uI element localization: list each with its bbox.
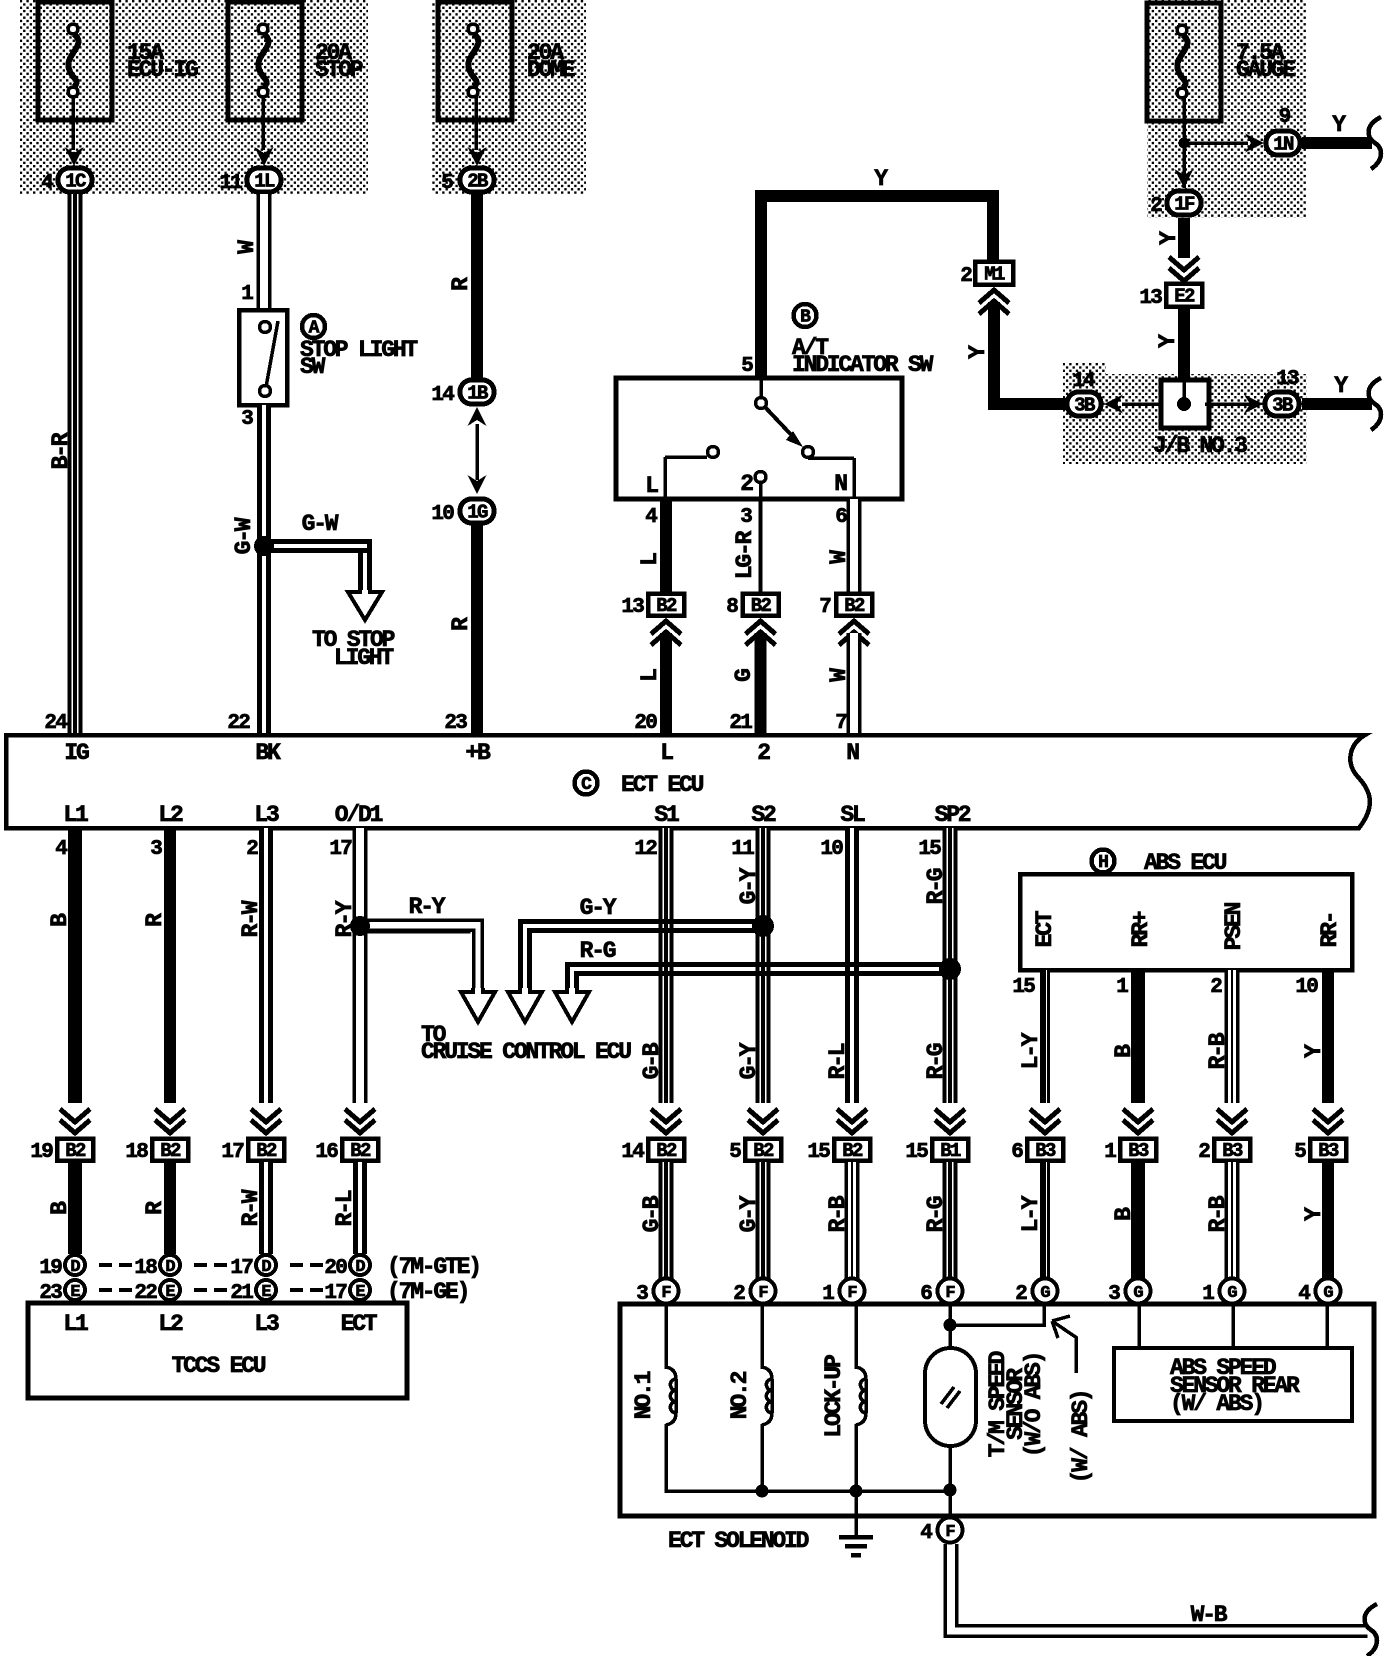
wire R-G lower segment x950 — [943, 1162, 958, 1279]
svg-text:L: L — [637, 553, 663, 566]
svg-text:N: N — [846, 740, 859, 766]
svg-text:7: 7 — [835, 712, 847, 735]
svg-text:4: 4 — [645, 506, 657, 529]
connector 1B pin 14 — [431, 380, 494, 407]
label 20A STOP — [315, 40, 363, 83]
pin 2 label below ECU — [246, 838, 258, 861]
label R-B lower x852 — [825, 1195, 851, 1232]
chevron down above B1 x950 — [935, 1109, 965, 1133]
connector D pin 17 — [230, 1255, 276, 1280]
wire L-Y ABS upper x1045 — [1040, 970, 1050, 1103]
svg-text:13: 13 — [1276, 368, 1299, 391]
svg-text:L2: L2 — [158, 1311, 183, 1337]
wire B-R vertical — [68, 194, 83, 733]
wire G-Y upper segment x763 — [756, 828, 771, 1103]
arrow left into 3B — [1104, 395, 1123, 414]
ECT ECU box — [6, 735, 1370, 828]
wire G-W below switch — [257, 405, 271, 733]
svg-text:17: 17 — [230, 1257, 253, 1280]
pin 6 label AT — [835, 506, 847, 529]
ABS pin labels rotated — [1032, 902, 1343, 950]
pin 3 label AT — [740, 506, 752, 529]
wire T/M column lower — [948, 1446, 952, 1514]
label R-G horizontal — [580, 938, 616, 964]
svg-text:2B: 2B — [467, 171, 488, 193]
svg-text:19: 19 — [30, 1141, 53, 1164]
svg-text:L-Y: L-Y — [1018, 1195, 1044, 1232]
ABS ECU box — [1020, 874, 1352, 970]
svg-text:G-W: G-W — [231, 517, 257, 554]
svg-text:A: A — [309, 319, 320, 339]
svg-text:Y: Y — [874, 166, 888, 192]
pin 22 label — [227, 712, 250, 735]
svg-text:ECT ECU: ECT ECU — [621, 772, 704, 798]
svg-text:3B: 3B — [1074, 395, 1095, 417]
A/T sw N contact line — [808, 458, 854, 499]
svg-text:(W/ ABS): (W/ ABS) — [1068, 1391, 1094, 1484]
connector B2 pin 18 — [125, 1139, 188, 1165]
svg-text:D: D — [70, 1258, 80, 1277]
svg-text:E2: E2 — [1174, 286, 1195, 308]
connector G pin 4 — [1298, 1279, 1340, 1307]
svg-text:S1: S1 — [654, 802, 679, 828]
svg-text:NO.1: NO.1 — [631, 1371, 657, 1419]
svg-text:W: W — [234, 240, 260, 254]
connector B2 pin 7 — [819, 594, 872, 620]
label R upper — [448, 277, 474, 291]
junction dot rail NO.2 — [756, 1485, 769, 1498]
svg-text:G-Y: G-Y — [580, 895, 617, 921]
label G-Y top x763 — [736, 867, 762, 904]
label R lower — [448, 617, 474, 631]
label LOCK-UP — [821, 1355, 847, 1438]
svg-text:L3: L3 — [254, 1311, 279, 1337]
A/T sw common contact — [756, 380, 767, 409]
junction dot O/D1 branch — [350, 916, 370, 936]
connector F pin 4 — [920, 1518, 962, 1546]
label 20A DOME — [527, 40, 575, 83]
wire fuse1 tail — [71, 97, 75, 150]
label L-Y ABS lower x1045 — [1018, 1195, 1044, 1232]
svg-text:R-W: R-W — [238, 900, 264, 937]
ABS pin 1 number — [1116, 976, 1128, 999]
pin 23 label — [444, 712, 467, 735]
wire Y E2 to J/B — [1178, 308, 1190, 380]
svg-text:B2: B2 — [844, 595, 865, 617]
wire R-G upper segment x950 — [943, 828, 958, 1103]
label Y top — [874, 166, 888, 192]
chevron up below B2-7 — [839, 621, 869, 645]
label R-Y upper x360 — [332, 900, 358, 937]
svg-text:Y: Y — [1155, 334, 1181, 348]
wire gauge tail — [1182, 97, 1186, 188]
wire Y 1F to E2 — [1178, 218, 1190, 258]
wire 2G to T/M junction — [956, 1306, 1044, 1327]
chevron down above B2 x763 — [748, 1109, 778, 1133]
svg-text:21: 21 — [729, 712, 752, 735]
wire B upper segment x75 — [68, 828, 82, 1103]
connector B3 pin 5 — [1294, 1139, 1346, 1165]
pin 11 label below ECU x763 — [731, 838, 754, 861]
svg-text:ECT: ECT — [341, 1311, 378, 1337]
svg-text:R-B: R-B — [825, 1195, 851, 1232]
svg-text:B2: B2 — [656, 595, 677, 617]
break symbol W-B — [1365, 1604, 1377, 1656]
svg-text:E: E — [355, 1283, 365, 1302]
circled A — [302, 315, 325, 339]
svg-text:SP2: SP2 — [935, 802, 971, 828]
svg-text:9: 9 — [1279, 106, 1291, 129]
svg-text:1C: 1C — [65, 171, 86, 193]
label R lower x170 — [142, 1201, 168, 1215]
wire Y right of 3B — [1302, 398, 1372, 410]
svg-text:B3: B3 — [1222, 1140, 1243, 1162]
svg-text:(W/ ABS): (W/ ABS) — [1170, 1391, 1263, 1417]
wire L-Y ABS lower x1045 — [1040, 1162, 1050, 1279]
wire G-B upper segment x666 — [659, 828, 674, 1103]
svg-text:B3: B3 — [1128, 1140, 1149, 1162]
connector B2 pin 5 — [729, 1139, 781, 1165]
connector D pin 19 — [39, 1255, 85, 1280]
pin 15 label below ECU x950 — [918, 838, 941, 861]
solenoid coil LOCK-UP — [856, 1306, 866, 1493]
svg-text:R-G: R-G — [923, 868, 949, 904]
wire R-G branch to cruise control — [555, 962, 950, 1022]
junction block hatch top-left — [20, 0, 368, 194]
svg-text:5: 5 — [729, 1141, 741, 1164]
T/M speed sensor capsule — [925, 1348, 976, 1446]
label 7M-GE — [387, 1279, 468, 1305]
svg-text:1: 1 — [1104, 1141, 1116, 1164]
svg-text:G: G — [1133, 1284, 1143, 1303]
label G-W vertical — [231, 517, 257, 554]
pin 17 label below ECU — [329, 838, 352, 861]
label LG-R — [732, 530, 758, 579]
svg-text:L: L — [637, 669, 663, 682]
wire R-Y upper segment x360 — [353, 828, 368, 1103]
label R-G upper x950 — [923, 1043, 949, 1079]
svg-text:1B: 1B — [467, 383, 488, 405]
label Y ABS lower x1328 — [1301, 1207, 1327, 1221]
label W — [234, 240, 260, 254]
svg-text:1L: 1L — [254, 171, 275, 193]
wire G-Y branch to cruise control — [508, 919, 763, 1022]
junction block hatch J/B No.3 — [1063, 362, 1307, 464]
svg-text:F: F — [945, 1523, 955, 1542]
arrow right into 3B-13 — [1244, 395, 1263, 414]
label G-Y upper x763 — [736, 1042, 762, 1079]
label STOP LIGHT SW — [300, 337, 418, 380]
connector B3 pin 2 — [1198, 1139, 1250, 1165]
wire R-W lower segment x266 — [259, 1162, 273, 1254]
svg-text:6: 6 — [835, 506, 847, 529]
label R-B ABS upper x1232 — [1205, 1032, 1231, 1069]
junction dot rail LOCK-UP — [850, 1485, 863, 1498]
svg-text:L1: L1 — [63, 1311, 88, 1337]
svg-text:3: 3 — [740, 506, 752, 529]
connector 1L pin 11 — [219, 168, 281, 195]
pin 12 label below ECU x666 — [634, 838, 657, 861]
svg-text:L3: L3 — [254, 802, 279, 828]
chevron down above B3 x1232 — [1217, 1109, 1247, 1133]
pin 3 label below ECU — [150, 838, 162, 861]
label Y left of J/B wire — [1155, 334, 1181, 348]
J/B junction dot — [1177, 382, 1191, 411]
wire G lower — [755, 633, 767, 733]
connector B3 pin 6 — [1011, 1139, 1063, 1165]
label B upper x75 — [47, 913, 73, 927]
svg-text:E: E — [70, 1283, 80, 1302]
svg-text:6: 6 — [1011, 1141, 1023, 1164]
label R-Y horizontal — [409, 894, 446, 920]
wire R-L upper segment x852 — [845, 828, 859, 1103]
svg-text:G-Y: G-Y — [736, 1042, 762, 1079]
svg-text:R: R — [448, 277, 474, 291]
ECU bottom pin labels — [63, 802, 970, 828]
label G lower — [731, 669, 757, 682]
connector 1F pin 2 — [1150, 191, 1201, 218]
ABS pin 10 number — [1295, 976, 1318, 999]
connector M1 pin 2 — [960, 262, 1013, 289]
svg-text:17: 17 — [221, 1141, 244, 1164]
wire Y M1 to corner — [988, 302, 1068, 410]
label W-B — [1191, 1602, 1228, 1628]
wire R-L lower segment x360 — [353, 1162, 367, 1254]
chevron down above B2 x852 — [837, 1109, 867, 1133]
label R-W upper x266 — [238, 900, 264, 937]
svg-text:2: 2 — [246, 838, 258, 861]
wire W lower AT — [847, 633, 862, 733]
svg-text:1F: 1F — [1174, 194, 1195, 216]
svg-text:S2: S2 — [751, 802, 776, 828]
svg-text:B2: B2 — [656, 1140, 677, 1162]
svg-text:ECU-IG: ECU-IG — [127, 57, 198, 83]
wire R dome — [471, 194, 483, 379]
label T/M SPEED SENSOR W/O ABS — [985, 1351, 1047, 1457]
svg-text:TCCS ECU: TCCS ECU — [172, 1353, 266, 1379]
connector E pin 17 — [324, 1280, 370, 1305]
svg-text:NO.2: NO.2 — [727, 1371, 753, 1419]
wire Y right of 1N — [1302, 137, 1372, 149]
svg-text:G-Y: G-Y — [736, 1195, 762, 1232]
svg-text:R-B: R-B — [1205, 1195, 1231, 1232]
stop light switch A box — [239, 310, 287, 405]
svg-text:20: 20 — [324, 1257, 347, 1280]
svg-text:(W/O ABS): (W/O ABS) — [1021, 1353, 1047, 1457]
svg-text:5: 5 — [441, 172, 453, 195]
svg-text:1G: 1G — [467, 502, 488, 524]
svg-text:IG: IG — [64, 740, 89, 766]
solenoid bottom rail — [666, 1489, 950, 1493]
svg-text:19: 19 — [39, 1257, 62, 1280]
svg-text:8: 8 — [726, 596, 738, 619]
connector B1 pin 15 — [905, 1139, 968, 1165]
svg-text:C: C — [581, 775, 592, 795]
svg-text:11: 11 — [731, 838, 754, 861]
label 7.5A GAUGE — [1236, 40, 1295, 83]
svg-text:ECT: ECT — [1032, 910, 1058, 947]
svg-text:13: 13 — [621, 596, 644, 619]
connector B3 pin 1 — [1104, 1139, 1156, 1165]
A/T sw arm — [764, 406, 814, 458]
label L upper — [637, 553, 663, 566]
label R-G top x950 — [923, 868, 949, 904]
ABS SPEED SENSOR REAR box — [1114, 1348, 1352, 1421]
svg-text:4: 4 — [55, 838, 67, 861]
junction block hatch dome — [432, 0, 586, 194]
wire B lower segment x75 — [68, 1162, 82, 1254]
connector B2 pin 15 — [807, 1139, 870, 1165]
ground — [839, 1491, 873, 1555]
svg-text:M1: M1 — [984, 264, 1005, 286]
svg-text:B2: B2 — [350, 1140, 371, 1162]
arrow down into 1F — [1175, 169, 1194, 188]
svg-text:W-B: W-B — [1191, 1602, 1228, 1628]
connector G pin 3 — [1108, 1279, 1150, 1307]
connector 1C pin 4 — [41, 168, 92, 195]
label ECT SOLENOID — [668, 1528, 809, 1554]
svg-text:DOME: DOME — [527, 57, 575, 83]
svg-text:7: 7 — [819, 596, 831, 619]
solenoid coil NO.1 — [666, 1306, 676, 1493]
label 15A ECU-IG — [127, 40, 198, 83]
chevron up below B2-13 — [651, 621, 681, 645]
wire L upper — [660, 499, 672, 592]
chevron up below B2-8 — [746, 621, 776, 645]
svg-text:R-Y: R-Y — [409, 894, 446, 920]
wire R-W upper segment x266 — [259, 828, 273, 1103]
connector 2B pin 5 — [441, 168, 494, 195]
junction dot S2 branch — [752, 915, 774, 937]
label G-B upper x666 — [639, 1042, 665, 1079]
TCCS pin labels — [63, 1311, 377, 1337]
connector B2 pin 14 — [621, 1139, 684, 1165]
chevron down above B3 x1328 — [1313, 1109, 1343, 1133]
junction block J/B NO.3 box — [1161, 380, 1209, 428]
svg-text:23: 23 — [444, 712, 467, 735]
connector F pin 6 — [920, 1279, 962, 1307]
fuse F1 15A ECU-IG — [38, 2, 112, 120]
wire W upper AT — [847, 499, 862, 592]
fuse F2 20A STOP — [228, 2, 302, 120]
svg-text:H: H — [1098, 853, 1108, 873]
pin 5 label — [741, 355, 753, 378]
svg-text:11: 11 — [219, 172, 242, 195]
svg-text:17: 17 — [329, 838, 352, 861]
svg-text:13: 13 — [1139, 287, 1162, 310]
svg-text:R-G: R-G — [923, 1043, 949, 1079]
wire fuse3 tail — [474, 97, 478, 150]
wire LG-R — [758, 499, 762, 592]
label R upper x170 — [142, 913, 168, 927]
chevron down above E2 — [1169, 257, 1199, 281]
connector 3B pin 13 — [1265, 368, 1299, 417]
circled C ECT ECU — [575, 772, 704, 799]
arrow right into 1N — [1245, 134, 1264, 153]
label R-L lower x360 — [332, 1190, 358, 1226]
A/T sw 2 contact — [755, 472, 766, 500]
label L lower — [637, 669, 663, 682]
svg-text:RR-: RR- — [1317, 913, 1343, 948]
svg-text:G-B: G-B — [639, 1195, 665, 1232]
svg-text:2: 2 — [1150, 195, 1162, 218]
label B ABS upper x1138 — [1111, 1044, 1137, 1058]
wire Y ABS lower x1328 — [1322, 1162, 1334, 1279]
svg-text:Y: Y — [1334, 373, 1348, 399]
svg-text:10: 10 — [1295, 976, 1318, 999]
svg-text:G: G — [1227, 1284, 1237, 1303]
svg-text:15: 15 — [807, 1141, 830, 1164]
svg-text:R: R — [448, 617, 474, 631]
label W upper AT — [826, 550, 852, 564]
svg-text:4: 4 — [920, 1522, 932, 1545]
svg-text:R-G: R-G — [580, 938, 616, 964]
svg-text:15: 15 — [905, 1141, 928, 1164]
wire R-B lower segment x852 — [845, 1162, 860, 1279]
label R-L upper x852 — [825, 1043, 851, 1079]
svg-text:18: 18 — [134, 1257, 157, 1280]
junction dot T/M bottom — [944, 1484, 957, 1497]
ABS pin 15 number — [1012, 976, 1035, 999]
svg-text:2: 2 — [960, 265, 972, 288]
svg-text:B2: B2 — [65, 1140, 86, 1162]
svg-text:B: B — [800, 308, 811, 328]
connector D pin 18 — [134, 1255, 180, 1280]
wire to 1N — [1184, 141, 1248, 145]
label L-Y ABS upper x1045 — [1018, 1032, 1044, 1069]
label Y right top — [1332, 112, 1346, 138]
svg-text:14: 14 — [1072, 370, 1095, 393]
wire T/M column upper — [948, 1306, 952, 1350]
svg-text:1: 1 — [1116, 976, 1128, 999]
label R-G lower x950 — [923, 1196, 949, 1232]
svg-text:R-L: R-L — [332, 1190, 358, 1226]
stop light sw contacts — [260, 321, 279, 397]
ECU top pin labels — [64, 740, 859, 766]
wire W-B — [944, 1544, 1369, 1638]
svg-text:3: 3 — [150, 838, 162, 861]
svg-text:G: G — [1040, 1284, 1050, 1303]
label W/ ABS — [1068, 1391, 1094, 1484]
wire G-Y lower segment x763 — [756, 1162, 771, 1279]
connector D pin 20 — [324, 1255, 370, 1280]
junction block hatch gauge — [1147, 0, 1306, 218]
junction dot T/M top — [944, 1319, 957, 1332]
svg-text:D: D — [261, 1258, 271, 1277]
ABS pin 2 number — [1210, 976, 1222, 999]
svg-text:20: 20 — [634, 712, 657, 735]
chevron down above B2 x266 — [251, 1109, 281, 1133]
svg-text:B2: B2 — [751, 595, 772, 617]
wire R lower segment x170 — [164, 1162, 176, 1254]
wire Y ABS upper x1328 — [1322, 970, 1334, 1103]
wire L lower — [660, 633, 672, 733]
wire G-B lower segment x666 — [659, 1162, 674, 1279]
svg-text:D: D — [355, 1258, 365, 1277]
connector B2 pin 17 — [221, 1139, 284, 1165]
svg-text:BK: BK — [255, 740, 281, 766]
label G-Y horizontal — [580, 895, 617, 921]
svg-text:B2: B2 — [753, 1140, 774, 1162]
svg-text:22: 22 — [227, 712, 250, 735]
ECT SOLENOID box — [620, 1304, 1374, 1516]
wire Y top run — [755, 190, 999, 378]
svg-text:Y: Y — [1332, 112, 1346, 138]
label G-Y lower x763 — [736, 1195, 762, 1232]
svg-text:1: 1 — [241, 283, 253, 306]
wire G-W branch vertical + arrow to stop light — [348, 539, 382, 620]
svg-text:2: 2 — [1198, 1141, 1210, 1164]
